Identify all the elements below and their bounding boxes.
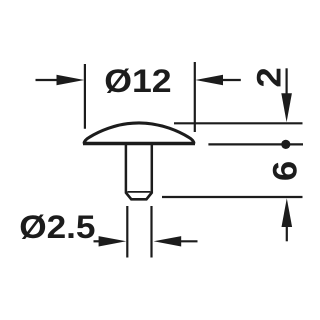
svg-text:Ø2.5: Ø2.5 — [19, 210, 95, 245]
svg-text:2: 2 — [249, 67, 288, 87]
svg-text:Ø12: Ø12 — [104, 63, 171, 99]
svg-text:6: 6 — [265, 161, 304, 181]
